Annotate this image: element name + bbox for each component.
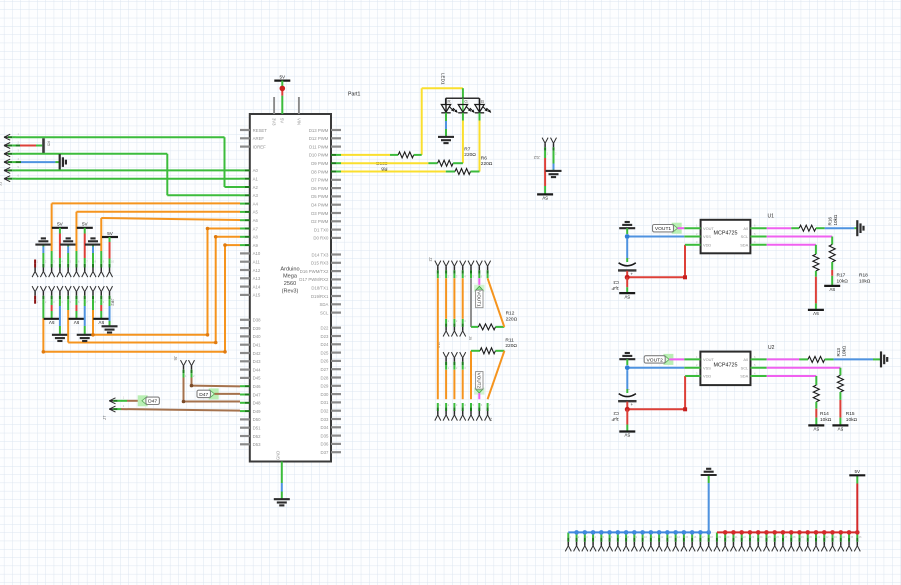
svg-text:C2: C2 [613, 411, 619, 416]
svg-text:D8 PWM: D8 PWM [311, 169, 329, 174]
svg-text:VOUT: VOUT [703, 226, 714, 231]
svg-text:SCL: SCL [741, 234, 749, 239]
svg-text:D36: D36 [321, 442, 329, 447]
ground (rotated) right of R16 [856, 220, 858, 236]
ic U1 MCP4725 body [701, 220, 751, 254]
wire J2 pin4 to J9 pin3 (orange) [462, 278, 464, 319]
svg-text:VIN: VIN [296, 118, 301, 125]
svg-text:+: + [630, 271, 633, 276]
svg-text:D51: D51 [253, 426, 261, 431]
wire R11 to J4 pin7 (orange diagonal) [495, 350, 504, 352]
connector J9 (3-pin facing down) [443, 331, 446, 337]
connector J10 (3-pin facing up) [443, 352, 446, 358]
junction dot (red) below C3 [625, 275, 630, 280]
ground (flipped) above blue bus [701, 474, 717, 476]
svg-text:D16 PWM/TX2: D16 PWM/TX2 [300, 269, 329, 274]
power 5V (flipped) under R14 [808, 424, 824, 426]
label R13 10k (rotated) [836, 345, 847, 356]
wire orange riser to Arduino A7 [208, 228, 241, 230]
wire J1 pin4 to ground [16, 161, 21, 163]
connector J1 (6-pin, left edge) [4, 134, 10, 137]
svg-text:R7: R7 [464, 147, 470, 153]
ground under JP2 pin7 [77, 334, 93, 336]
svg-text:D7 PWM: D7 PWM [311, 178, 329, 183]
wire JP2 pin7 to ground [84, 303, 86, 306]
svg-text:D41: D41 [253, 343, 261, 348]
wire J6 pin2 to Arduino D46 (brown) [191, 378, 193, 386]
ground under LED red [438, 136, 454, 138]
svg-text:SCL: SCL [320, 310, 329, 315]
svg-text:A14: A14 [253, 284, 261, 289]
svg-text:SDA: SDA [740, 243, 748, 248]
svg-text:D33: D33 [321, 417, 329, 422]
wire U2 A0 to R13 (magenta) [751, 358, 767, 360]
svg-text:10kΩ: 10kΩ [841, 345, 846, 356]
svg-text:10kΩ: 10kΩ [859, 278, 871, 284]
wire U1 SDA to R17 (magenta) [750, 244, 766, 246]
connector bottom power rail header (36 pins facing down) [565, 546, 568, 552]
ground under JP2 pin4 [52, 334, 68, 336]
wire R7 to green cathode [453, 162, 463, 164]
svg-text:D27: D27 [321, 367, 329, 372]
wire J12 pin1 to 5V (red) [544, 155, 546, 158]
wire Arduino D8 to R6 [341, 171, 446, 173]
svg-text:SDA: SDA [320, 302, 329, 307]
wire J2 pin2 to J9 pin1 (orange) [445, 278, 447, 319]
wire 5V to header pin7 [84, 228, 86, 234]
svg-text:R6: R6 [481, 155, 487, 161]
wire header pin8 to flipped ground [92, 253, 94, 260]
wire J1 pin1 to Arduino A2 [16, 136, 225, 138]
svg-text:3V3: 3V3 [272, 118, 277, 126]
junction dots on red bus [723, 530, 728, 535]
resistor R17 (vertical) [813, 254, 819, 271]
wire ground to VSS junction [626, 359, 628, 365]
svg-text:D39: D39 [253, 326, 261, 331]
connector JP2 bottom header row (10 pins facing up) [32, 286, 35, 292]
svg-text:D38: D38 [253, 318, 261, 323]
connector J6 (2-pin facing up) [181, 360, 184, 366]
wire JP2 pin2 to Arduino A9 (orange) [42, 303, 44, 318]
svg-text:D49: D49 [253, 409, 261, 414]
resistor R6 [455, 169, 471, 175]
wire red bus (5V side) [717, 531, 857, 533]
svg-text:D47: D47 [253, 392, 261, 397]
resistor R7 [438, 160, 454, 166]
ground (rotated) right of R13 [880, 351, 882, 367]
ground (rotated) at J1 pin4 [59, 154, 61, 170]
wire junction to capacitor C3 [626, 239, 628, 258]
wire Arduino D9 to R7 [341, 162, 428, 164]
svg-text:5V: 5V [828, 287, 835, 292]
wire VOUT1 flag to U1 VOUT (magenta) [678, 227, 685, 229]
svg-text:D17 PWM/RX2: D17 PWM/RX2 [299, 277, 329, 282]
capacitor C2 (polarized) [619, 394, 636, 397]
ic U2 MCP4725 body [700, 352, 750, 386]
Arduino right pin stubs and labels [331, 129, 341, 131]
wire J2 pin1 to J4 pin1 (orange) [437, 278, 439, 399]
svg-text:VSS: VSS [703, 365, 711, 370]
connector J12 (2-pin facing up) [542, 138, 545, 144]
svg-text:A10: A10 [253, 251, 261, 256]
svg-text:VOUT1: VOUT1 [655, 226, 672, 232]
svg-text:D26: D26 [321, 359, 329, 364]
svg-text:D43: D43 [253, 359, 261, 364]
svg-text:D45: D45 [253, 376, 261, 381]
svg-text:D53: D53 [253, 442, 261, 447]
svg-text:R13: R13 [836, 348, 841, 357]
svg-text:A15: A15 [253, 293, 261, 298]
resistor R11 [480, 348, 495, 354]
wire blue bus (GND side) [568, 531, 708, 533]
wire R18 to 5V [831, 262, 833, 270]
svg-text:D10 PWM: D10 PWM [309, 153, 329, 158]
pin 3V3 (top) [273, 97, 275, 114]
svg-text:R16: R16 [828, 217, 833, 226]
wire J12 pin2 to ground [553, 155, 555, 164]
wire C2 to VDD (red) [626, 402, 628, 410]
svg-text:5V: 5V [541, 196, 548, 201]
wire red to 5V below C3 [626, 277, 628, 287]
power 5V (flipped) under R18 [824, 285, 840, 287]
net flag VOUT1 at U1 [672, 223, 682, 234]
wire U2 VSS (blue) [627, 367, 684, 369]
wire down to R15 [839, 368, 841, 376]
wire D47 flag to Arduino D47 [215, 393, 241, 395]
svg-text:VSS: VSS [703, 234, 711, 239]
svg-text:D11 PWM: D11 PWM [309, 144, 329, 149]
svg-text:G: G [464, 99, 468, 104]
wire U2 SDA to R14 (magenta) [751, 375, 767, 377]
Arduino left pin stubs and labels [240, 129, 250, 131]
svg-text:VDD: VDD [703, 374, 711, 379]
wire down to R14 [815, 376, 817, 385]
ground (flipped) g3 [85, 244, 101, 246]
svg-text:+: + [630, 402, 633, 407]
net flag D47 at Arduino [209, 388, 219, 399]
svg-text:D5 PWM: D5 PWM [311, 194, 329, 199]
svg-text:10kΩ: 10kΩ [837, 278, 849, 284]
connector top header row (10 pins facing down) [32, 271, 35, 277]
wire 5V supply to Arduino 5V pin [281, 81, 283, 87]
wire J1 pin6 to Arduino A1 [16, 178, 240, 180]
svg-text:A8: A8 [253, 235, 259, 240]
svg-text:A1: A1 [253, 177, 259, 182]
svg-text:J7: J7 [102, 415, 107, 420]
svg-text:R5: R5 [47, 141, 52, 147]
power 5V bar3 (top block) [102, 236, 118, 238]
ground at J12 pin2 [546, 170, 562, 172]
wire J10 pins to J4 pins 2-4 (orange) [445, 370, 447, 399]
pin VIN (top) [298, 97, 300, 114]
svg-text:D50: D50 [253, 417, 261, 422]
svg-text:D29: D29 [321, 384, 329, 389]
ground under JP2 pin10 [102, 325, 118, 327]
svg-text:U1: U1 [768, 214, 775, 220]
svg-text:VOUT2: VOUT2 [647, 357, 664, 363]
svg-text:D52: D52 [253, 434, 261, 439]
svg-text:D3 PWM: D3 PWM [311, 211, 329, 216]
wire J1 pin2 to R5 [16, 145, 20, 147]
power 5V (flipped) under R15 [832, 424, 848, 426]
resistor R14 (vertical) [813, 385, 819, 402]
svg-text:RESET: RESET [253, 128, 268, 133]
ic U-Arduino Mega 2560 body [250, 114, 331, 462]
svg-text:D35: D35 [321, 433, 329, 438]
led LED1 green element [462, 98, 464, 112]
svg-text:2560: 2560 [284, 281, 296, 287]
resistor R8 [398, 152, 414, 158]
svg-text:D0 RX0: D0 RX0 [313, 236, 329, 241]
wire U1 VSS (blue) [627, 236, 684, 238]
svg-text:D46: D46 [253, 384, 261, 389]
wire blue riser to ground [708, 476, 710, 484]
wire JP2 pin10 to ground [109, 303, 111, 306]
wire header pin2 to flipped ground [42, 253, 44, 260]
svg-text:D23: D23 [321, 334, 329, 339]
svg-text:5V: 5V [813, 427, 820, 432]
wire J7 pin1 to D47 net flag [121, 400, 127, 402]
svg-text:D30: D30 [321, 392, 329, 397]
svg-text:D28: D28 [321, 375, 329, 380]
svg-text:5V: 5V [48, 320, 55, 325]
svg-text:D31: D31 [321, 400, 329, 405]
ground (flipped) g2 [60, 244, 76, 246]
connector J2 (7-pin facing up) [435, 261, 438, 267]
svg-text:VOUT1: VOUT1 [477, 291, 482, 307]
svg-text:R15: R15 [846, 411, 855, 417]
wire down to R18 [831, 237, 833, 245]
resistor R15 (vertical) [837, 375, 843, 392]
svg-text:5V: 5V [73, 320, 80, 325]
led LED1 red element [445, 98, 447, 112]
svg-text:D14 TX3: D14 TX3 [312, 252, 329, 257]
ground (flipped) above C3 [619, 227, 635, 229]
capacitor C3 (polarized) [619, 263, 636, 266]
svg-text:D22: D22 [321, 326, 329, 331]
wire R16 to ground (blue) [816, 227, 825, 229]
svg-text:A7: A7 [253, 226, 259, 231]
power 5V (flipped) below C2 [619, 430, 635, 432]
svg-text:D15 RX3: D15 RX3 [311, 261, 329, 266]
wire 5V to header pin4 [59, 228, 61, 234]
wire U1 SCL to R18 (magenta) [750, 236, 766, 238]
potentiometer R5 [42, 138, 45, 153]
wire down to R17 [815, 245, 817, 254]
wire LED green cathode (yellow) [462, 113, 464, 121]
svg-text:A0: A0 [253, 168, 259, 173]
svg-text:D48: D48 [253, 401, 261, 406]
label C3 1uF (rotated 180) [611, 280, 619, 291]
svg-text:D44: D44 [253, 367, 261, 372]
svg-text:A12: A12 [253, 268, 261, 273]
svg-text:220Ω: 220Ω [506, 316, 518, 322]
svg-text:D18/TX1: D18/TX1 [311, 286, 329, 291]
svg-text:D6 PWM: D6 PWM [311, 186, 329, 191]
svg-text:R12: R12 [506, 311, 515, 317]
wire R14 to 5V [815, 402, 817, 409]
power 5V (flipped) below C3 [619, 292, 635, 294]
svg-text:10kΩ: 10kΩ [833, 214, 838, 225]
power 5V (flipped) under R17 [808, 309, 824, 311]
svg-text:Mega: Mega [283, 274, 298, 280]
svg-text:D4 PWM: D4 PWM [311, 203, 329, 208]
wire R17 to 5V [815, 271, 817, 277]
svg-text:5V: 5V [623, 294, 630, 299]
junction dots on blue bus [574, 530, 579, 535]
svg-text:D34: D34 [321, 425, 329, 430]
wire R6 to blue cathode [471, 171, 480, 173]
wire yellow common-anode feed (top) [422, 87, 463, 89]
junction dot (blue) at C3 top [625, 234, 630, 239]
connector J4 (7-pin facing down) [435, 415, 438, 421]
resistor R18 (vertical) [829, 245, 835, 263]
wire J6 pin1 to Arduino D48 (brown) [183, 378, 185, 402]
power 5V bar2 (top block) [77, 227, 93, 229]
svg-text:(Rev3): (Rev3) [282, 289, 299, 295]
svg-text:5V: 5V [107, 231, 114, 236]
power 5V (flipped) under JP2 pin6 [75, 303, 77, 305]
wire header pin9 to Arduino A6 (orange) [100, 251, 102, 260]
connector J7 (2-pin facing left) [109, 398, 115, 401]
wire Arduino D10 to R8 [341, 154, 390, 156]
wire JP2 pin4 to ground [59, 303, 61, 306]
wire LED red cathode to ground [445, 113, 447, 121]
svg-text:220Ω: 220Ω [505, 343, 517, 349]
wire header pin6 to Arduino A5 (orange) [75, 251, 77, 260]
svg-text:220Ω: 220Ω [481, 161, 493, 167]
ground (flipped) above C2 [619, 358, 635, 360]
label J12 (rotated 180) [533, 155, 540, 160]
wire 5V bar3 to header pin10 [109, 237, 111, 242]
svg-text:C3: C3 [613, 280, 619, 285]
svg-text:R18: R18 [859, 272, 868, 278]
power 5V above red bus [849, 474, 865, 476]
led LED1 blue element [479, 98, 481, 112]
wire J2 pin3 to J9 pin2 (orange) [453, 278, 455, 319]
wire J2 pin6 to VOUT1 flag (magenta) [478, 278, 480, 286]
svg-text:LED1: LED1 [440, 73, 445, 85]
svg-text:D1 TX0: D1 TX0 [314, 227, 329, 232]
label R16 10k (rotated) [828, 214, 839, 225]
power 5V (flipped) under J12 [537, 193, 553, 195]
svg-text:A3: A3 [253, 193, 259, 198]
wire header pin3 to Arduino A4 (orange) [51, 251, 53, 260]
svg-text:A9: A9 [253, 243, 259, 248]
svg-text:5V: 5V [98, 320, 105, 325]
svg-text:J12: J12 [533, 155, 540, 160]
svg-text:D42: D42 [253, 351, 261, 356]
svg-text:A0: A0 [743, 357, 749, 362]
svg-text:A13: A13 [253, 276, 261, 281]
svg-text:R17: R17 [837, 272, 846, 278]
wire JP2 pin5 to Arduino A8 (orange) [67, 303, 69, 310]
svg-text:D13 PWM: D13 PWM [309, 128, 329, 133]
wire header pin5 to flipped ground [67, 253, 69, 260]
svg-text:SCL: SCL [741, 365, 749, 370]
wire LED anode bus [446, 97, 480, 99]
wire junction to capacitor C2 [626, 370, 628, 389]
net flag VOUT2 at U2 [663, 354, 673, 365]
svg-text:VOUT2: VOUT2 [477, 373, 482, 389]
wire orange riser to Arduino A8 [216, 236, 240, 238]
svg-text:GND: GND [276, 451, 281, 460]
wire LED blue cathode (yellow) [479, 113, 481, 121]
svg-text:5V: 5V [82, 222, 89, 227]
wire R12 to J2 pin7 (orange diagonal) [496, 326, 505, 328]
svg-text:U2: U2 [768, 345, 775, 351]
wire R13 to ground (blue) [825, 358, 834, 360]
wire R15 to 5V [839, 392, 841, 400]
net flag VOUT2 (pointing down) [474, 388, 484, 395]
svg-text:D12 PWM: D12 PWM [309, 136, 329, 141]
svg-text:D25: D25 [321, 350, 329, 355]
label C2 1uF (rotated 180) [611, 411, 619, 422]
svg-text:J6: J6 [173, 356, 178, 361]
svg-text:Part1: Part1 [348, 92, 361, 98]
svg-text:10kΩ: 10kΩ [820, 417, 832, 423]
svg-text:D2 PWM: D2 PWM [311, 219, 329, 224]
svg-text:R14: R14 [820, 411, 829, 417]
svg-text:D9 PWM: D9 PWM [311, 161, 329, 166]
svg-text:D47: D47 [148, 399, 157, 405]
svg-text:A6: A6 [253, 218, 259, 223]
svg-text:R11: R11 [505, 337, 514, 343]
junction dot (red) below C2 [625, 407, 630, 412]
svg-text:Arduino: Arduino [280, 266, 299, 272]
wire J1 pin3 to Arduino A3 [16, 153, 168, 155]
wire VOUT2 flag to J4 pin6 (magenta) [478, 393, 480, 399]
resistor R16 [799, 225, 816, 231]
resistor R12 [478, 324, 495, 330]
power 5V (flipped) under JP2 pin3 [51, 303, 53, 305]
svg-text:1µF: 1µF [611, 417, 619, 422]
svg-text:D19/RX1: D19/RX1 [311, 294, 329, 299]
svg-text:D40: D40 [253, 334, 261, 339]
svg-text:SDA: SDA [740, 374, 748, 379]
wire J7 pin2 to Arduino D49 (brown) [121, 409, 240, 411]
junction dot on 5V wire [280, 86, 286, 92]
svg-text:JP2: JP2 [110, 299, 115, 307]
svg-text:D24: D24 [321, 342, 329, 347]
svg-text:5V: 5V [837, 427, 844, 432]
svg-text:MCP4725: MCP4725 [714, 362, 738, 368]
wire JP2 pin8 to Arduino A7 (orange) [92, 303, 94, 310]
svg-text:J2: J2 [428, 257, 433, 262]
svg-text:A5: A5 [253, 210, 259, 215]
wire red to 5V below C2 [626, 409, 628, 424]
svg-text:5V: 5V [280, 118, 285, 123]
wire VOUT2 flag to U2 VOUT (magenta) [669, 358, 684, 360]
svg-text:5V: 5V [624, 433, 631, 438]
svg-text:220Ω: 220Ω [464, 152, 476, 158]
svg-text:D32: D32 [321, 409, 329, 414]
label R8 220 (rotated 180) [375, 160, 387, 172]
wire J4 pin5 to R11 (orange riser) [470, 351, 472, 399]
svg-text:10kΩ: 10kΩ [846, 417, 858, 423]
svg-text:A0: A0 [743, 226, 749, 231]
svg-text:A4: A4 [253, 201, 259, 206]
svg-text:AREF: AREF [253, 136, 265, 141]
wire orange riser to Arduino A9 [225, 244, 240, 246]
svg-text:A2: A2 [253, 185, 259, 190]
svg-text:IOREF: IOREF [253, 144, 267, 149]
wire J1 pin5 to Arduino A0 [16, 169, 240, 171]
pin 5V (top) [281, 96, 283, 114]
wire ground to VSS junction [626, 228, 628, 234]
power 5V rail above Arduino [274, 79, 290, 81]
wire R8 to anode riser [414, 154, 422, 156]
